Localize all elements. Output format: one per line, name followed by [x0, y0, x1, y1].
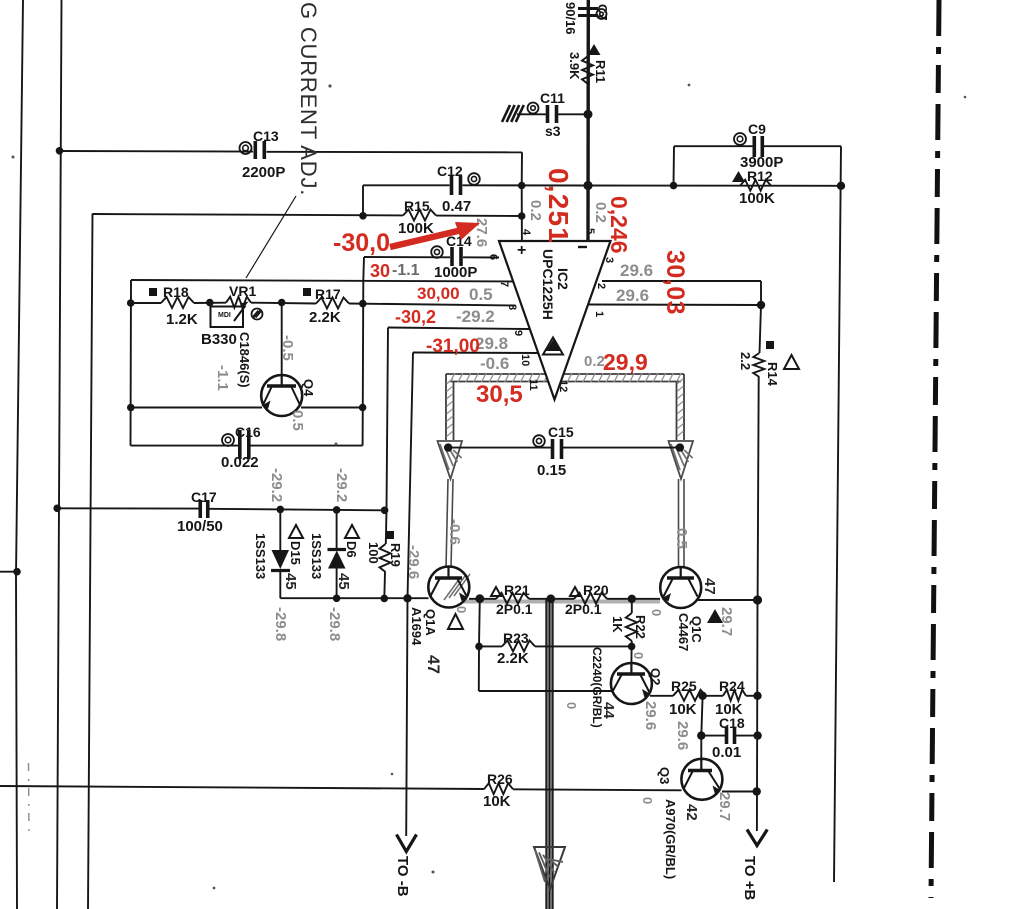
- svg-text:R20: R20: [583, 582, 609, 598]
- svg-text:12: 12: [557, 380, 569, 392]
- svg-text:C4467: C4467: [676, 613, 691, 651]
- transistor Q1A: [428, 567, 469, 608]
- resistor R25: [673, 690, 706, 701]
- svg-text:0,251: 0,251: [543, 168, 574, 244]
- svg-text:R22: R22: [633, 615, 648, 639]
- svg-text:C7: C7: [595, 4, 610, 21]
- junction dots rail: [475, 594, 636, 603]
- svg-text:R24: R24: [719, 678, 745, 694]
- wire left vertical rail 2: [57, 0, 62, 909]
- diode D15: [271, 509, 290, 598]
- pencil loop box top edge: [446, 373, 684, 383]
- label Q1A: [409, 607, 438, 646]
- svg-text:C1846(S): C1846(S): [237, 332, 252, 388]
- svg-text:0.5: 0.5: [469, 285, 493, 304]
- svg-text:45: 45: [335, 573, 352, 590]
- wire pin2: [589, 304, 761, 307]
- svg-text:0.5: 0.5: [673, 528, 690, 549]
- svg-text:2P0.1: 2P0.1: [565, 601, 602, 617]
- resistor R14: [753, 353, 764, 377]
- label R14: [765, 341, 780, 387]
- diode D6: [328, 510, 347, 599]
- svg-text:TO -B: TO -B: [394, 856, 411, 897]
- svg-text:TO +B: TO +B: [741, 856, 758, 900]
- wire C13 corner down: [521, 152, 523, 185]
- svg-text:D15: D15: [288, 541, 303, 565]
- pencil line into Q1A: [446, 479, 453, 568]
- pencil hatch inside Q1A: [444, 574, 470, 600]
- svg-text:B330: B330: [201, 331, 237, 348]
- svg-text:2.2K: 2.2K: [309, 309, 341, 326]
- svg-text:27.6: 27.6: [473, 218, 490, 247]
- svg-text:Q4: Q4: [301, 379, 316, 397]
- svg-text:Q3: Q3: [657, 767, 672, 784]
- svg-text:29.8: 29.8: [475, 334, 508, 353]
- wire Q4 base: [281, 303, 283, 376]
- svg-text:2.2K: 2.2K: [497, 650, 529, 667]
- svg-text:47: 47: [424, 655, 443, 674]
- svg-text:R25: R25: [671, 678, 697, 694]
- capacitor C16: [222, 430, 249, 459]
- wire Q2 base: [630, 646, 632, 663]
- svg-text:9: 9: [512, 330, 524, 336]
- svg-text:10K: 10K: [483, 793, 511, 810]
- svg-text:90/16: 90/16: [563, 2, 578, 35]
- svg-text:0.47: 0.47: [442, 198, 471, 215]
- svg-text:0: 0: [454, 606, 469, 613]
- svg-text:-29.8: -29.8: [326, 607, 343, 641]
- svg-text:10K: 10K: [669, 701, 697, 718]
- capacitor C7: [578, 9, 607, 20]
- svg-text:Q2: Q2: [648, 668, 663, 685]
- ground symbol: [502, 105, 548, 122]
- resistor R19: [380, 510, 391, 598]
- svg-text:8: 8: [506, 304, 518, 310]
- wire main bus vertical to pin 5: [586, 0, 590, 241]
- pencil arrowhead right: [669, 441, 694, 479]
- svg-text:R11: R11: [593, 60, 608, 83]
- svg-text:1: 1: [593, 311, 605, 317]
- label D6: [344, 525, 359, 558]
- svg-text:C15: C15: [548, 424, 574, 440]
- pencil big arrowhead bottom: [534, 847, 565, 889]
- warning triangle Q1C: [707, 609, 723, 623]
- resistor R22: [626, 599, 637, 647]
- svg-text:2.2: 2.2: [738, 352, 753, 370]
- svg-text:30,5: 30,5: [476, 381, 523, 408]
- svg-text:R19: R19: [388, 543, 403, 567]
- svg-text:4: 4: [520, 229, 532, 236]
- label C9: [734, 121, 766, 145]
- op-amp IC2 triangle: [499, 241, 611, 400]
- svg-text:C16: C16: [235, 424, 261, 440]
- pencil smudge center band: [546, 599, 553, 909]
- svg-text:7: 7: [498, 281, 510, 287]
- wire left vertical rail 1: [16, 0, 23, 909]
- svg-text:47: 47: [701, 578, 718, 595]
- svg-text:R26: R26: [487, 771, 513, 787]
- svg-text:30: 30: [370, 261, 390, 281]
- svg-text:MDI: MDI: [218, 312, 231, 319]
- junction dots pin8 rail: [127, 299, 367, 308]
- svg-text:29.6: 29.6: [620, 261, 653, 280]
- svg-text:1000P: 1000P: [434, 264, 477, 281]
- pencil arrowhead left: [438, 441, 463, 479]
- svg-text:R18: R18: [163, 284, 189, 300]
- capacitor C18: [725, 727, 729, 744]
- label R21: [491, 582, 530, 598]
- wire diode rail bottom: [280, 594, 428, 602]
- wire pin10: [408, 353, 539, 599]
- transistor Q3: [681, 759, 722, 800]
- wire C14 corner down: [362, 257, 365, 281]
- capacitor C14: [450, 247, 454, 266]
- svg-text:R15: R15: [404, 198, 430, 214]
- junction bus/C11: [584, 110, 593, 119]
- svg-text:C13: C13: [253, 128, 279, 144]
- svg-text:0: 0: [564, 702, 579, 709]
- label C12: [437, 163, 480, 185]
- svg-text:44: 44: [600, 702, 617, 719]
- warning triangle Q1A: [448, 614, 463, 629]
- wire C14 rail pin6: [364, 256, 499, 259]
- svg-text:-1.1: -1.1: [214, 365, 231, 391]
- wire R23 row: [475, 643, 635, 651]
- resistor R26: [484, 783, 513, 794]
- wire C15 rail: [444, 443, 684, 451]
- capacitor C15: [533, 435, 561, 459]
- wire pin4 vertical: [521, 186, 523, 242]
- svg-text:0.5: 0.5: [289, 410, 306, 431]
- label R17: [303, 286, 341, 302]
- svg-text:1SS133: 1SS133: [309, 533, 324, 579]
- svg-text:29.6: 29.6: [674, 721, 691, 750]
- svg-text:IC2: IC2: [555, 268, 571, 290]
- transistor Q1C: [660, 567, 701, 608]
- svg-text:-0.6: -0.6: [446, 519, 463, 545]
- svg-text:C12: C12: [437, 163, 463, 179]
- svg-text:1SS133: 1SS133: [253, 533, 268, 579]
- label R19: [386, 531, 403, 567]
- svg-text:-1.1: -1.1: [392, 262, 420, 279]
- svg-text:45: 45: [282, 573, 299, 590]
- pointer line: [246, 196, 296, 278]
- junction pins 2-3: [757, 301, 765, 309]
- svg-text:-30,0: -30,0: [333, 229, 390, 257]
- svg-text:-29.2: -29.2: [333, 468, 350, 502]
- capacitor C12: [450, 176, 454, 195]
- wire pin8 rail R18 row: [131, 303, 516, 306]
- svg-text:1.2K: 1.2K: [166, 311, 198, 328]
- pencil loop right drop: [677, 374, 685, 440]
- svg-text:R12: R12: [747, 168, 773, 184]
- resistor R15: [403, 210, 436, 221]
- svg-text:0.2: 0.2: [527, 200, 544, 221]
- svg-text:C11: C11: [540, 90, 565, 106]
- svg-text:-30,2: -30,2: [395, 307, 436, 327]
- svg-text:0.022: 0.022: [221, 454, 259, 471]
- svg-text:VR1: VR1: [229, 283, 256, 299]
- svg-text:6: 6: [487, 254, 499, 260]
- svg-text:C17: C17: [191, 489, 217, 505]
- svg-text:3.9K: 3.9K: [567, 52, 582, 80]
- svg-text:0.15: 0.15: [537, 462, 566, 479]
- resistor R20: [574, 593, 607, 604]
- capacitor C17: [198, 500, 202, 518]
- svg-text:100: 100: [366, 542, 381, 564]
- wire Q2 emitter R25 R24 row: [650, 695, 758, 697]
- svg-text:R21: R21: [504, 582, 530, 598]
- warning triangle inside IC2: [543, 338, 563, 355]
- wire pin9: [387, 328, 530, 511]
- svg-text:Q1A: Q1A: [423, 609, 438, 636]
- svg-text:0.2: 0.2: [584, 353, 605, 370]
- svg-text:2: 2: [595, 283, 607, 289]
- wire C12 rail: [363, 184, 841, 187]
- svg-text:10: 10: [519, 354, 531, 366]
- wire C12 left corner: [362, 185, 364, 216]
- resistor R24: [723, 690, 746, 701]
- resistor R17: [316, 298, 349, 309]
- svg-text:11: 11: [527, 379, 539, 391]
- wire C9 loop: [674, 146, 842, 185]
- svg-text:42: 42: [683, 804, 700, 821]
- svg-text:C9: C9: [748, 121, 766, 137]
- transistor Q4: [261, 375, 302, 416]
- svg-text:29.7: 29.7: [716, 792, 733, 821]
- junction dots R15 rail: [359, 212, 525, 220]
- wire Q3 base from C18 node: [700, 736, 702, 760]
- label C14: [431, 233, 472, 258]
- wire left vertical rail 3: [88, 214, 93, 909]
- wire R21 R20 rail: [469, 598, 660, 600]
- resistor R18: [161, 297, 194, 308]
- wire box left edge: [130, 280, 133, 446]
- svg-text:0: 0: [640, 797, 655, 804]
- svg-text:0,246: 0,246: [606, 196, 632, 254]
- wire R14 branch vertical: [758, 305, 761, 600]
- wire R15 rail: [93, 214, 523, 216]
- pencil line into Q1C: [679, 479, 685, 567]
- wire right vertical from R12 node: [834, 146, 841, 882]
- svg-text:0: 0: [649, 609, 664, 616]
- wire box right edge: [362, 281, 365, 446]
- dash-dot boundary line: [931, 0, 939, 898]
- svg-text:s3: s3: [545, 123, 561, 139]
- svg-text:29.6: 29.6: [616, 286, 649, 305]
- faint dash fragment lower-left: [28, 763, 31, 832]
- svg-text:A1694: A1694: [409, 607, 424, 646]
- pin 5 minus sign: [578, 246, 587, 248]
- wire Q1C collector to +B rail: [698, 595, 762, 604]
- resistor R23: [502, 640, 535, 651]
- label D15: [288, 525, 303, 565]
- svg-text:30,00: 30,00: [417, 284, 460, 303]
- svg-text:-29.6: -29.6: [405, 545, 422, 579]
- svg-text:-0.6: -0.6: [480, 354, 509, 373]
- junction rail2/C13: [56, 147, 64, 155]
- svg-text:-31,00: -31,00: [426, 336, 480, 357]
- junction dots diode rail top: [277, 506, 389, 514]
- junction dots C12 rail: [518, 181, 845, 190]
- potentiometer VR1: [211, 297, 263, 327]
- svg-text:G CURRENT ADJ.: G CURRENT ADJ.: [296, 2, 321, 196]
- svg-text:100K: 100K: [739, 190, 775, 207]
- wire C17 rail: [53, 505, 384, 513]
- svg-text:2P0.1: 2P0.1: [496, 601, 533, 617]
- label R20: [570, 582, 609, 598]
- svg-text:-29.2: -29.2: [268, 468, 285, 502]
- svg-text:-29.2: -29.2: [456, 307, 495, 326]
- svg-text:+: +: [517, 242, 526, 259]
- svg-text:100/50: 100/50: [177, 518, 223, 535]
- marker triangle R11: [588, 44, 601, 55]
- svg-text:1K: 1K: [610, 616, 625, 633]
- svg-text:D6: D6: [344, 541, 359, 558]
- svg-text:0.01: 0.01: [712, 744, 741, 761]
- label Q1C: [676, 613, 704, 651]
- wire C18 row: [697, 696, 762, 740]
- wire pin3: [602, 281, 761, 305]
- warning triangle R14: [784, 355, 799, 369]
- svg-text:29,9: 29,9: [603, 349, 648, 375]
- svg-text:A970(GR/BL): A970(GR/BL): [663, 799, 678, 879]
- svg-text:R23: R23: [503, 630, 529, 646]
- wire R26 row: [0, 786, 682, 790]
- resistor R21: [496, 593, 529, 604]
- svg-text:30,03: 30,03: [661, 250, 689, 315]
- svg-text:UPC1225H: UPC1225H: [540, 249, 556, 320]
- wire left branch to Q2: [479, 599, 612, 691]
- wire pin7 rail (box top): [131, 280, 514, 282]
- svg-text:R14: R14: [765, 362, 780, 387]
- svg-text:3: 3: [603, 257, 615, 263]
- capacitor C13: [240, 141, 265, 159]
- label R18: [149, 284, 189, 300]
- wire -B vertical with arrow: [397, 598, 417, 851]
- svg-text:29.6: 29.6: [642, 701, 659, 730]
- capacitor C9: [752, 136, 756, 157]
- svg-text:C18: C18: [719, 715, 745, 731]
- svg-text:5: 5: [584, 228, 596, 234]
- junction dots R25 R24 row: [698, 692, 761, 700]
- wire Q4 emitter rail: [127, 404, 366, 412]
- wire Q3 emitter: [722, 787, 761, 795]
- resistor R11: [582, 56, 593, 84]
- wire +B vertical with arrow: [747, 600, 767, 846]
- wire C16 rail (box bottom): [131, 445, 363, 447]
- svg-text:0: 0: [631, 652, 646, 659]
- svg-text:100K: 100K: [398, 220, 434, 237]
- transistor Q2: [611, 663, 652, 704]
- capacitor C11: [528, 103, 589, 124]
- wire C13 rail: [59, 151, 522, 152]
- svg-text:-29.8: -29.8: [272, 607, 289, 641]
- pencil smudge on R21 R20 rail: [462, 600, 660, 604]
- svg-text:2200P: 2200P: [242, 164, 285, 181]
- red arrow: [390, 222, 480, 247]
- svg-text:29.7: 29.7: [718, 607, 735, 636]
- resistor R12: [740, 180, 771, 191]
- svg-text:-0.5: -0.5: [279, 335, 296, 361]
- pencil loop left drop: [446, 374, 454, 440]
- node rail1 stub: [0, 568, 21, 576]
- marker triangle R12: [732, 171, 745, 182]
